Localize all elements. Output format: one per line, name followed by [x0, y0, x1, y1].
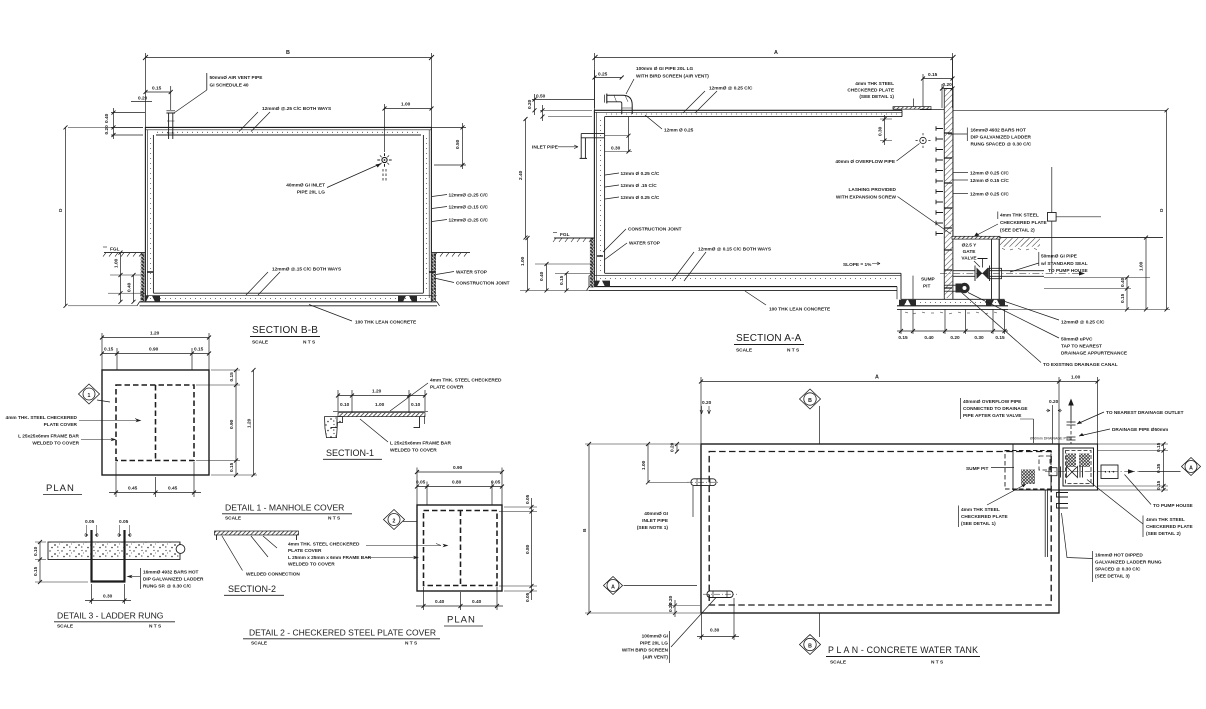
left dim D	[58, 125, 143, 307]
air vent symbol bottom-left	[703, 591, 737, 598]
svg-text:0.05: 0.05	[525, 494, 531, 504]
svg-text:GATE: GATE	[963, 249, 976, 255]
ladder plan symbol below pit	[1045, 490, 1068, 557]
svg-text:40mmØ OVERFLOW PIPE: 40mmØ OVERFLOW PIPE	[963, 399, 1021, 405]
svg-text:0.10: 0.10	[33, 546, 39, 556]
svg-text:1: 1	[88, 393, 91, 399]
svg-text:PLATE COVER: PLATE COVER	[430, 385, 464, 391]
svg-text:0.20: 0.20	[950, 335, 960, 341]
gate valve label	[961, 243, 980, 268]
dimension A top	[593, 53, 956, 108]
svg-text:(SEE NOTE 1): (SEE NOTE 1)	[637, 525, 669, 531]
left inner dims 1.00/0.20	[641, 442, 689, 484]
diamond marker 1	[79, 384, 111, 404]
inlet pipe symbol left wall	[687, 479, 720, 486]
svg-text:12mm Ø 0.25 C/C: 12mm Ø 0.25 C/C	[970, 171, 1009, 177]
svg-text:P L A N - CONCRETE WATER TANK: P L A N - CONCRETE WATER TANK	[828, 645, 978, 655]
sump pit step	[897, 273, 1008, 309]
B marker top	[800, 389, 821, 444]
svg-text:12mm Ø 0.25 C/C: 12mm Ø 0.25 C/C	[621, 171, 660, 177]
A marker left	[604, 577, 698, 595]
svg-text:2.40: 2.40	[518, 170, 524, 180]
floor slab	[140, 293, 438, 302]
svg-text:0.20: 0.20	[527, 99, 533, 109]
level marker square with line	[1048, 167, 1102, 274]
gate valve in pit	[975, 259, 990, 282]
svg-text:SLOPE = 1%: SLOPE = 1%	[843, 262, 872, 268]
svg-text:WITH BIRD SCREEN (AIR VENT): WITH BIRD SCREEN (AIR VENT)	[636, 74, 709, 80]
checkered plate detail2 label plan	[1087, 480, 1193, 538]
svg-text:WELDED CONNECTION: WELDED CONNECTION	[246, 572, 300, 578]
svg-text:12mmØ @ 0.15 C/C BOTH WAYS: 12mmØ @ 0.15 C/C BOTH WAYS	[698, 247, 771, 253]
svg-text:CHECKERED PLATE: CHECKERED PLATE	[1146, 524, 1193, 530]
earth backfill band right wall BB	[432, 253, 436, 301]
hatch patch left chamber	[1021, 470, 1035, 485]
svg-text:0.40: 0.40	[104, 113, 110, 123]
svg-text:(AIR VENT): (AIR VENT)	[643, 655, 669, 661]
GI pipe std seal label	[1010, 252, 1088, 272]
extension line to right dims	[953, 109, 1167, 111]
pit right side dims	[1098, 442, 1169, 492]
dim 0.50 right	[432, 123, 466, 169]
svg-text:12mmØ @.25 C/C: 12mmØ @.25 C/C	[449, 193, 489, 199]
dim 0.30 inlet	[605, 117, 632, 154]
svg-text:16mmØ 4932 BARS HOT: 16mmØ 4932 BARS HOT	[143, 570, 199, 576]
wall top dims 0.15/0.20	[921, 59, 955, 108]
A marker right	[1139, 458, 1201, 476]
svg-text:(SEE DETAIL 1): (SEE DETAIL 1)	[859, 94, 894, 100]
drain elbow in pit	[944, 283, 970, 293]
svg-text:SCALE: SCALE	[225, 516, 241, 522]
lashing label	[836, 187, 951, 234]
svg-text:1.00: 1.00	[114, 258, 120, 268]
svg-text:L 25x25x6mm FRAME BAR: L 25x25x6mm FRAME BAR	[18, 434, 79, 440]
svg-text:A: A	[611, 584, 615, 590]
AA left bottom dims	[520, 236, 594, 292]
svg-text:4mm THK STEEL: 4mm THK STEEL	[1000, 213, 1039, 219]
top dim 1.20	[100, 331, 211, 371]
top dims 0.90	[415, 465, 504, 505]
svg-text:0.30: 0.30	[878, 126, 884, 136]
svg-text:12mmØ @.25 C/C: 12mmØ @.25 C/C	[449, 218, 489, 224]
svg-text:1.00: 1.00	[1139, 261, 1145, 271]
pipe through pit	[940, 268, 1085, 278]
svg-text:0.20: 0.20	[702, 400, 712, 406]
frame bar label	[18, 434, 116, 447]
svg-text:N T S: N T S	[149, 624, 161, 630]
right dims d2	[499, 494, 537, 602]
svg-text:RUNG SP. @ 0.30 C/C: RUNG SP. @ 0.30 C/C	[143, 584, 192, 590]
svg-text:SCALE: SCALE	[830, 660, 846, 666]
svg-text:WATER STOP: WATER STOP	[629, 241, 660, 247]
SECTION-1 title	[323, 448, 382, 459]
drainage tap labels	[961, 292, 1127, 368]
svg-text:PIPE AFTER GATE VALVE: PIPE AFTER GATE VALVE	[963, 413, 1021, 419]
svg-text:0.35: 0.35	[1156, 463, 1162, 473]
title SECTION A-A	[734, 333, 804, 354]
svg-text:0.40: 0.40	[127, 282, 133, 292]
dim 0.20 left small	[131, 96, 152, 102]
speckle under pit floor	[905, 312, 997, 314]
overflow pipe label block	[961, 398, 1034, 443]
air vent label	[175, 73, 263, 113]
top slab rebar label AA	[683, 86, 753, 114]
svg-text:0.20: 0.20	[943, 82, 953, 88]
svg-text:(SEE DETAIL 3): (SEE DETAIL 3)	[1095, 574, 1130, 580]
svg-text:PLAN: PLAN	[46, 483, 75, 494]
svg-text:DETAIL 1 - MANHOLE COVER: DETAIL 1 - MANHOLE COVER	[225, 503, 344, 513]
svg-text:(SEE DETAIL 2): (SEE DETAIL 2)	[1000, 228, 1035, 234]
footing dark pads	[141, 296, 160, 302]
ladder rungs on right wall	[936, 126, 943, 235]
svg-text:0.30: 0.30	[611, 146, 621, 152]
wall rebar ticks right wall	[944, 133, 952, 288]
svg-text:SECTION A-A: SECTION A-A	[736, 333, 802, 344]
sump pit label plan	[966, 466, 1014, 472]
svg-text:CHECKERED PLATE: CHECKERED PLATE	[961, 514, 1008, 520]
under slab rebar label	[645, 115, 694, 134]
svg-text:0.50: 0.50	[455, 139, 461, 149]
svg-text:DIP GALVANIZED LADDER: DIP GALVANIZED LADDER	[143, 577, 204, 583]
labels section-1	[360, 378, 502, 454]
lean concrete label AA	[745, 291, 830, 313]
dim overflow drop	[878, 115, 893, 145]
float/inlet symbol inside tank	[377, 153, 391, 181]
svg-text:1.20: 1.20	[372, 389, 382, 395]
svg-text:WITH BIRD SCREEN: WITH BIRD SCREEN	[622, 648, 669, 654]
svg-text:50mmØ GI PIPE: 50mmØ GI PIPE	[1041, 254, 1077, 260]
inner dashed d2	[424, 511, 498, 586]
to nearest drainage outlet label	[1077, 410, 1184, 424]
pipe row through pit to A marker	[1045, 465, 1139, 479]
svg-text:0.10: 0.10	[340, 402, 350, 408]
dim 1.00 upper right	[383, 102, 434, 153]
svg-text:(SEE DETAIL 1): (SEE DETAIL 1)	[961, 521, 996, 527]
earth backfill band left wall BB	[141, 253, 145, 301]
svg-text:0.15: 0.15	[194, 347, 204, 353]
left tall dim	[518, 117, 528, 240]
svg-text:B: B	[582, 528, 588, 532]
svg-text:INLET PIPE: INLET PIPE	[532, 145, 558, 151]
lean concrete	[137, 302, 440, 306]
svg-text:CONNECTED TO DRAINAGE: CONNECTED TO DRAINAGE	[963, 406, 1028, 412]
svg-text:0.15: 0.15	[229, 372, 235, 382]
svg-text:w/ STANDARD SEAL: w/ STANDARD SEAL	[1040, 261, 1088, 267]
svg-text:0.05: 0.05	[525, 592, 531, 602]
pit bottom dims	[897, 309, 1008, 341]
left wall footing pads	[592, 281, 610, 287]
svg-text:0.15: 0.15	[928, 72, 938, 78]
plate section-2	[215, 531, 299, 540]
wall rebar labels AA right	[953, 171, 1009, 198]
svg-text:FGL: FGL	[560, 232, 570, 238]
inner dashed rect	[709, 452, 1051, 606]
left wall	[145, 127, 153, 302]
svg-text:SECTION-2: SECTION-2	[228, 584, 276, 594]
svg-text:1.00: 1.00	[641, 460, 647, 470]
bottom dims d2	[416, 587, 503, 610]
svg-text:B: B	[286, 50, 290, 56]
wall dim 0.20 top-left	[700, 400, 712, 414]
svg-text:12mmØ @ 0.25 C/C: 12mmØ @ 0.25 C/C	[709, 86, 753, 92]
dims section-1	[336, 389, 427, 414]
svg-text:TAP TO NEAREST: TAP TO NEAREST	[1061, 344, 1102, 350]
outer square	[102, 370, 209, 475]
bottom slab rebar label	[246, 267, 341, 296]
svg-text:0.15: 0.15	[1120, 293, 1126, 303]
svg-text:WATER STOP: WATER STOP	[456, 270, 487, 276]
svg-text:TO PUMP HOUSE: TO PUMP HOUSE	[1048, 268, 1088, 274]
svg-text:0.50: 0.50	[536, 94, 546, 100]
concrete wall bar	[48, 542, 185, 560]
hatch patches in pit	[1066, 454, 1076, 468]
svg-text:VALVE: VALVE	[961, 256, 976, 262]
diamond marker 2	[384, 510, 418, 530]
svg-text:0.05: 0.05	[416, 480, 426, 486]
DETAIL 3 title	[54, 611, 175, 630]
top slab	[594, 110, 902, 116]
svg-text:LASHING PROVIDED: LASHING PROVIDED	[848, 187, 896, 193]
svg-text:GI SCHEDULE 40: GI SCHEDULE 40	[210, 83, 249, 89]
svg-text:0.45: 0.45	[168, 486, 178, 492]
svg-text:1.20: 1.20	[247, 418, 253, 428]
svg-text:INLET PIPE: INLET PIPE	[642, 518, 668, 524]
svg-text:0.30: 0.30	[710, 628, 720, 634]
svg-text:TO EXISTING DRAINAGE CANAL: TO EXISTING DRAINAGE CANAL	[1043, 362, 1118, 368]
svg-text:12mm Ø 0.25 C/C: 12mm Ø 0.25 C/C	[621, 195, 660, 201]
svg-text:40mm Ø OVERFLOW PIPE: 40mm Ø OVERFLOW PIPE	[835, 159, 895, 165]
title plan	[826, 645, 980, 666]
svg-text:WELDED TO COVER: WELDED TO COVER	[390, 448, 437, 454]
svg-text:12mm Ø 0.15 C/C: 12mm Ø 0.15 C/C	[970, 178, 1009, 184]
svg-text:12mm Ø 0.25: 12mm Ø 0.25	[664, 128, 694, 134]
right dims d1	[196, 368, 257, 477]
pit footing pads	[899, 300, 916, 306]
outer square d2	[417, 505, 502, 591]
svg-text:0.30: 0.30	[103, 594, 113, 600]
svg-text:DIP GALVANIZED LADDER: DIP GALVANIZED LADDER	[971, 135, 1032, 141]
drainage pipe label	[1079, 427, 1168, 436]
svg-text:12mm Ø 0.25 C/C: 12mm Ø 0.25 C/C	[970, 192, 1009, 198]
outer pit box right	[1059, 444, 1098, 490]
title SECTION B-B	[250, 325, 320, 346]
rung dims 0.05	[84, 519, 132, 537]
svg-text:SECTION B-B: SECTION B-B	[252, 325, 318, 336]
right wall (hatched)	[944, 89, 953, 300]
svg-text:0.20: 0.20	[1049, 399, 1059, 405]
svg-text:FGL: FGL	[110, 247, 120, 253]
svg-text:12mmØ @.15 C/C BOTH WAYS: 12mmØ @.15 C/C BOTH WAYS	[272, 267, 341, 273]
left dims det3	[33, 540, 88, 584]
svg-text:4mm THK. STEEL CHECKERED: 4mm THK. STEEL CHECKERED	[6, 415, 78, 421]
svg-text:SUMP: SUMP	[921, 277, 935, 283]
svg-text:50mmØ AIR VENT PIPE: 50mmØ AIR VENT PIPE	[210, 75, 263, 81]
inlet pipe label	[286, 164, 381, 196]
svg-text:0.20: 0.20	[668, 602, 674, 612]
svg-text:0.05: 0.05	[85, 519, 95, 525]
svg-text:DRAINAGE APPURTENANCE: DRAINAGE APPURTENANCE	[1061, 351, 1127, 357]
sub dims 0.15/0.90/0.15	[100, 347, 211, 371]
floor rebar label AA	[672, 247, 771, 282]
top slab	[145, 127, 432, 135]
svg-text:16mmØ 4932 BARS HOT: 16mmØ 4932 BARS HOT	[971, 128, 1027, 134]
svg-text:L 25mm x 25mm x 6mm FRAME BAR: L 25mm x 25mm x 6mm FRAME BAR	[288, 555, 372, 561]
svg-text:D: D	[58, 208, 64, 212]
svg-text:CONSTRUCTION JOINT: CONSTRUCTION JOINT	[456, 281, 510, 287]
svg-text:12mmØ @.25 C/C BOTH WAYS: 12mmØ @.25 C/C BOTH WAYS	[262, 106, 331, 112]
air vent elbow top-left	[605, 94, 633, 114]
svg-text:4mm THK. STEEL CHECKERED: 4mm THK. STEEL CHECKERED	[430, 378, 502, 384]
svg-text:N T S: N T S	[303, 340, 315, 346]
svg-text:0.80: 0.80	[452, 480, 462, 486]
overflow pipe	[835, 133, 930, 165]
ground line right of pit	[999, 238, 1163, 250]
svg-text:0.90: 0.90	[149, 347, 159, 353]
svg-text:0.40: 0.40	[1120, 277, 1126, 287]
svg-text:0.05: 0.05	[491, 480, 501, 486]
svg-text:WELDED TO COVER: WELDED TO COVER	[32, 441, 79, 447]
PLAN title d2	[444, 615, 483, 627]
svg-text:Ø2.5 Y: Ø2.5 Y	[962, 243, 978, 249]
svg-text:0.40: 0.40	[924, 335, 934, 341]
to pump house label plan	[1125, 475, 1193, 510]
svg-text:DETAIL 3 - LADDER RUNG: DETAIL 3 - LADDER RUNG	[57, 611, 164, 621]
svg-text:1.00: 1.00	[520, 256, 526, 266]
svg-text:12mm Ø .15 C/C: 12mm Ø .15 C/C	[621, 183, 658, 189]
dashed sump box inside tank	[1005, 451, 1051, 490]
bottom dim 0.30	[85, 584, 131, 604]
sump pit label AA	[921, 277, 935, 290]
svg-text:CHECKERED PLATE: CHECKERED PLATE	[847, 88, 894, 94]
nested dims top-left	[527, 94, 594, 122]
SECTION-2 title	[224, 584, 284, 595]
svg-text:0.15: 0.15	[229, 462, 235, 472]
earth backfill band left wall AA	[590, 238, 594, 288]
top slab rebar label	[239, 106, 331, 132]
svg-text:0.10: 0.10	[411, 402, 421, 408]
svg-text:0.15: 0.15	[559, 275, 565, 285]
air vent label plan	[622, 598, 716, 664]
svg-text:PLATE COVER: PLATE COVER	[44, 422, 78, 428]
pit chamber solid lines inside tank	[1013, 444, 1059, 490]
right wall rebar labels	[432, 193, 489, 224]
svg-text:0.25: 0.25	[598, 72, 608, 78]
svg-text:1.00: 1.00	[401, 102, 411, 108]
rung label det3	[127, 568, 205, 590]
dim B left	[582, 442, 700, 615]
ladder rung label plan	[1062, 513, 1162, 582]
svg-text:L 25x25x6mm FRAME BAR: L 25x25x6mm FRAME BAR	[390, 441, 451, 447]
bottom dims d1	[109, 462, 201, 497]
svg-text:CHECKERED PLATE: CHECKERED PLATE	[1000, 220, 1047, 226]
svg-text:N T S: N T S	[931, 660, 943, 666]
svg-text:0.40: 0.40	[435, 599, 445, 605]
pit floor rebar label	[1005, 302, 1105, 326]
B marker bottom	[800, 614, 821, 655]
svg-text:N T S: N T S	[405, 641, 417, 647]
svg-text:0.15: 0.15	[33, 566, 39, 576]
svg-text:1.00: 1.00	[1071, 375, 1081, 381]
arrows into d2 plan	[366, 544, 449, 560]
checkered plate detail1 label	[847, 81, 913, 107]
dim 0.15 top-left	[144, 86, 173, 111]
svg-text:A: A	[875, 375, 879, 381]
svg-text:DRAINAGE PIPE Ø50mm: DRAINAGE PIPE Ø50mm	[1112, 427, 1168, 433]
svg-text:1.00: 1.00	[375, 402, 385, 408]
svg-text:0.15: 0.15	[140, 290, 146, 300]
svg-text:D: D	[1159, 208, 1165, 212]
right dim stack	[1008, 108, 1170, 311]
ladder label AA	[948, 128, 1032, 148]
svg-text:4mm THK STEEL: 4mm THK STEEL	[855, 81, 894, 87]
pit right wall	[992, 238, 1000, 300]
dim A top	[699, 375, 1100, 445]
svg-text:SUMP PIT: SUMP PIT	[966, 466, 988, 472]
svg-text:RUNG SPACED @ 0.30 C/C: RUNG SPACED @ 0.30 C/C	[971, 142, 1032, 148]
left concrete support	[325, 417, 343, 438]
checkered plate detail1 label plan	[959, 484, 1027, 527]
svg-text:0.20: 0.20	[138, 96, 148, 102]
inlet pipe left	[532, 134, 604, 159]
FGL AA left	[553, 232, 594, 242]
svg-text:SCALE: SCALE	[736, 348, 752, 354]
drainage up arrow	[1067, 399, 1076, 445]
svg-text:4mm THK STEEL: 4mm THK STEEL	[1146, 517, 1185, 523]
svg-text:0.90: 0.90	[453, 465, 463, 471]
air vent label	[626, 66, 709, 94]
svg-text:WITH EXPANSION SCREW: WITH EXPANSION SCREW	[836, 195, 897, 201]
svg-text:SPACED @ 0.30 C/C: SPACED @ 0.30 C/C	[1095, 567, 1141, 573]
inlet pipe label plan	[637, 486, 693, 531]
svg-text:1.20: 1.20	[150, 331, 160, 337]
svg-text:0.30: 0.30	[974, 335, 984, 341]
svg-text:100 THK LEAN CONCRETE: 100 THK LEAN CONCRETE	[769, 307, 830, 313]
svg-text:PLAN: PLAN	[447, 615, 476, 626]
svg-text:SCALE: SCALE	[252, 340, 268, 346]
svg-text:Ø50mm DRAINAGE PIPE: Ø50mm DRAINAGE PIPE	[1030, 437, 1072, 441]
dimension B top	[143, 53, 434, 127]
svg-text:0.05: 0.05	[119, 519, 129, 525]
svg-text:4mm THK STEEL: 4mm THK STEEL	[961, 507, 1000, 513]
right angle support	[414, 417, 425, 428]
svg-text:50mmØ uPVC: 50mmØ uPVC	[1061, 337, 1093, 343]
DETAIL 1 title	[222, 503, 352, 522]
svg-text:N T S: N T S	[328, 516, 340, 522]
slope label	[843, 262, 880, 268]
svg-text:CONSTRUCTION JOINT: CONSTRUCTION JOINT	[628, 227, 682, 233]
left wall	[594, 110, 604, 287]
svg-text:PLATE COVER: PLATE COVER	[288, 548, 322, 554]
right wall	[423, 127, 431, 302]
air vent pipe	[166, 111, 175, 139]
svg-text:SECTION-1: SECTION-1	[326, 448, 374, 458]
svg-text:A: A	[1189, 465, 1193, 471]
floor slab	[587, 273, 902, 290]
svg-text:0.90: 0.90	[229, 419, 235, 429]
svg-text:PIPE 20L LG: PIPE 20L LG	[297, 190, 325, 196]
svg-text:(SEE DETAIL 2): (SEE DETAIL 2)	[1146, 531, 1181, 537]
svg-text:SCALE: SCALE	[57, 624, 73, 630]
lean concrete label	[309, 305, 416, 326]
svg-text:100mm Ø GI PIPE 20L LG: 100mm Ø GI PIPE 20L LG	[636, 66, 694, 72]
svg-text:0.20: 0.20	[104, 125, 110, 135]
svg-text:N T S: N T S	[787, 348, 799, 354]
svg-text:0.40: 0.40	[472, 599, 482, 605]
to pump house label	[1048, 268, 1088, 274]
svg-text:TO NEAREST DRAINAGE OUTLET: TO NEAREST DRAINAGE OUTLET	[1106, 410, 1184, 416]
svg-text:2: 2	[393, 518, 396, 524]
svg-text:0.15: 0.15	[1156, 442, 1162, 452]
